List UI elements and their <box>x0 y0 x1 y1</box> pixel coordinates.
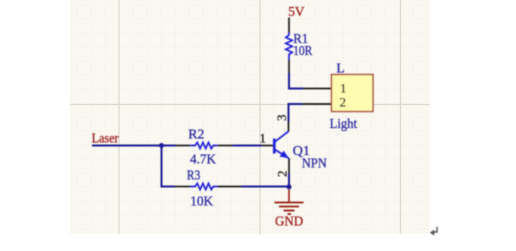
ground <box>275 189 304 214</box>
wire <box>289 73 303 89</box>
wire <box>233 145 262 147</box>
wire <box>162 146 176 187</box>
wire <box>288 174 290 187</box>
svg-text:R2: R2 <box>188 127 204 142</box>
svg-text:NPN: NPN <box>302 156 327 171</box>
return mark <box>430 227 437 236</box>
resistor R1 <box>286 32 292 73</box>
svg-text:Laser: Laser <box>92 131 119 146</box>
svg-text:L: L <box>336 61 344 76</box>
wire <box>289 104 303 122</box>
svg-text:R3: R3 <box>187 168 201 183</box>
svg-text:Light: Light <box>330 116 358 131</box>
wire <box>242 186 290 188</box>
wire <box>288 18 290 33</box>
connector L <box>332 75 374 112</box>
svg-text:1: 1 <box>340 81 347 96</box>
resistor R3 <box>175 183 242 189</box>
wire <box>92 145 176 147</box>
transistor Q1 <box>261 121 289 174</box>
svg-text:3: 3 <box>274 115 289 122</box>
svg-text:2: 2 <box>275 171 290 178</box>
svg-text:2: 2 <box>340 95 347 110</box>
resistor R2 <box>176 142 233 148</box>
svg-text:5V: 5V <box>288 4 304 19</box>
junction <box>287 184 292 189</box>
svg-text:10R: 10R <box>293 43 312 58</box>
svg-text:10K: 10K <box>190 194 213 209</box>
connector L pin 1 <box>303 88 332 90</box>
junction <box>159 143 164 148</box>
svg-text:GND: GND <box>275 214 303 229</box>
svg-text:4.7K: 4.7K <box>190 152 216 167</box>
svg-text:1: 1 <box>260 131 267 146</box>
connector L pin 2 <box>302 103 332 105</box>
